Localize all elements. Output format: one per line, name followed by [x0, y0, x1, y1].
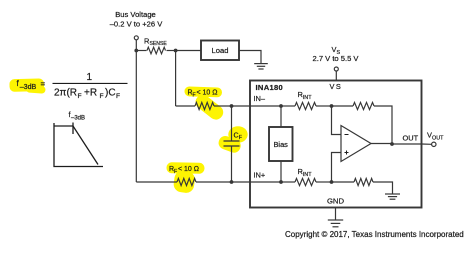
svg-text:2π(R: 2π(R [54, 87, 77, 98]
node C: IN- junction [230, 104, 234, 108]
wire: RSENSE to node B [167, 50, 176, 52]
wire: Bias bottom to node F [280, 161, 282, 182]
wire: node C into INA180 IN- pin [232, 105, 282, 107]
svg-text:IN–: IN– [254, 94, 266, 103]
ground: system ground below INA180 [328, 220, 343, 227]
svg-text:INT: INT [303, 95, 312, 101]
capacitor CF [224, 141, 240, 146]
wire: VS terminal to INA180 VS pin [335, 71, 337, 80]
node H: non-inverting input junction [330, 180, 334, 184]
node B: RSENSE output junction [174, 49, 178, 53]
terminal: bus voltage input circle [134, 36, 138, 40]
wire: node C down to CF top plate [231, 106, 233, 141]
svg-text:F: F [116, 93, 120, 100]
svg-text:–3dB: –3dB [71, 116, 85, 122]
wire: node E to Bias top [280, 106, 282, 127]
wire: bus terminal down to node A [135, 40, 137, 51]
wire: RINT upper to node G [316, 105, 332, 107]
label: f-3dB = equation left side [17, 79, 46, 91]
wire: node D into INA180 IN+ pin [232, 181, 282, 183]
block: INA180 outline [250, 81, 422, 208]
node I: output junction [390, 142, 394, 146]
highlight over CF capacitor [217, 126, 248, 154]
svg-text:–3dB: –3dB [20, 83, 37, 91]
svg-text:SENSE: SENSE [150, 41, 168, 47]
resistor RSENSE [147, 47, 166, 54]
terminal: VOUT circle [432, 142, 436, 146]
svg-text:F: F [193, 93, 196, 99]
svg-text:–0.2 V to +26 V: –0.2 V to +26 V [110, 19, 163, 28]
equation fraction: 1 / 2pi(RF+RF)CF [53, 72, 128, 100]
label: f-3dB above graph [69, 110, 86, 122]
svg-text:2.7 V to 5.5 V: 2.7 V to 5.5 V [312, 54, 359, 63]
resistor RINT upper [295, 102, 316, 109]
svg-text:+R: +R [84, 87, 97, 98]
label: VOUT [427, 131, 444, 142]
svg-text:C: C [234, 132, 239, 139]
svg-text:Copyright © 2017, Texas Instru: Copyright © 2017, Texas Instruments Inco… [285, 230, 464, 239]
block: Bias [269, 127, 293, 161]
svg-text:Bus Voltage: Bus Voltage [115, 10, 156, 19]
svg-text:F: F [78, 93, 82, 100]
wire: upper RF to node C [214, 105, 232, 107]
wire: node B corner to upper RF [176, 105, 195, 107]
svg-text:Bias: Bias [274, 140, 289, 149]
svg-text:F: F [174, 169, 177, 175]
svg-text:< 10 Ω: < 10 Ω [178, 166, 199, 173]
wire: node G down to op-amp inverting input [332, 106, 342, 135]
resistor RINT lower [295, 178, 316, 185]
resistor: feedback (internal) [353, 102, 374, 109]
wire: node E to RINT upper [281, 105, 295, 107]
wire: left rail corner to lower RF [136, 181, 177, 183]
wire: node G to feedback resistor [332, 105, 354, 107]
highlight over lower RF resistor [166, 162, 204, 194]
node A: bus junction [134, 49, 138, 53]
node G: inverting input junction [330, 104, 334, 108]
block: Load [201, 41, 239, 61]
resistor: internal gain resistor to ground [354, 178, 373, 185]
svg-text:INA180: INA180 [256, 83, 284, 92]
resistor RF upper value label: RF < 10 ohm [188, 90, 218, 99]
highlight over upper RF resistor [184, 86, 226, 122]
svg-text:Load: Load [212, 46, 229, 55]
resistor RSENSE label [144, 36, 167, 47]
ground: internal reference ground [385, 194, 400, 199]
resistor RF lower [177, 178, 196, 185]
svg-text:GND: GND [327, 197, 345, 206]
wire: RINT lower to node H [316, 181, 332, 183]
wire: Load to ground [239, 51, 261, 64]
node F: bias bottom junction [279, 180, 283, 184]
highlight over f-3dB equation label [9, 78, 45, 93]
svg-text:)C: )C [105, 87, 116, 98]
wire: INA180 GND pin to ground [335, 208, 337, 220]
resistor RF upper [195, 102, 214, 109]
terminal: VS supply circle [334, 67, 338, 71]
svg-text:F: F [239, 135, 242, 141]
wire: node I to OUT pin edge [392, 143, 422, 145]
wire: node B down to upper RF row [175, 51, 177, 107]
resistor RINT lower label [298, 167, 313, 178]
wire: node H up to op-amp non-inverting input [332, 153, 342, 183]
label: VS supply [332, 45, 341, 56]
wire: lower RF to node D [196, 181, 232, 183]
svg-text:F: F [100, 93, 104, 100]
svg-text:INT: INT [303, 172, 312, 178]
svg-text:IN+: IN+ [254, 171, 266, 180]
node E: bias top junction [279, 104, 283, 108]
svg-text:VS: VS [330, 82, 343, 91]
node D: IN+ junction [230, 180, 234, 184]
wire: CF bottom plate down to node D [231, 146, 233, 182]
wire: node F to RINT lower [281, 181, 295, 183]
resistor RINT upper label [298, 90, 313, 101]
wire: feedback resistor right then down to output node [374, 106, 392, 144]
svg-text:OUT: OUT [403, 133, 419, 142]
wire: op-amp output to node I [371, 143, 392, 145]
op-amp U1 [341, 126, 371, 162]
wire: node H to internal gain resistor [332, 181, 355, 183]
svg-text:=: = [41, 79, 46, 88]
ground: load return [254, 64, 268, 69]
svg-text:OUT: OUT [432, 136, 444, 142]
svg-text:1: 1 [87, 72, 93, 83]
wire: gain resistor to internal ground [373, 182, 393, 194]
wire: node B to Load box [176, 50, 201, 52]
capacitor CF label [234, 132, 242, 141]
wire: node A down left rail to IN+ row [135, 51, 137, 183]
wire: OUT pin to VOUT terminal [422, 143, 432, 145]
resistor RF lower value label: RF < 10 ohm [169, 166, 199, 175]
graph: frequency response rolloff axes and curve [54, 123, 103, 167]
svg-text:< 10 Ω: < 10 Ω [197, 90, 218, 97]
wire: node A to RSENSE [136, 50, 146, 52]
